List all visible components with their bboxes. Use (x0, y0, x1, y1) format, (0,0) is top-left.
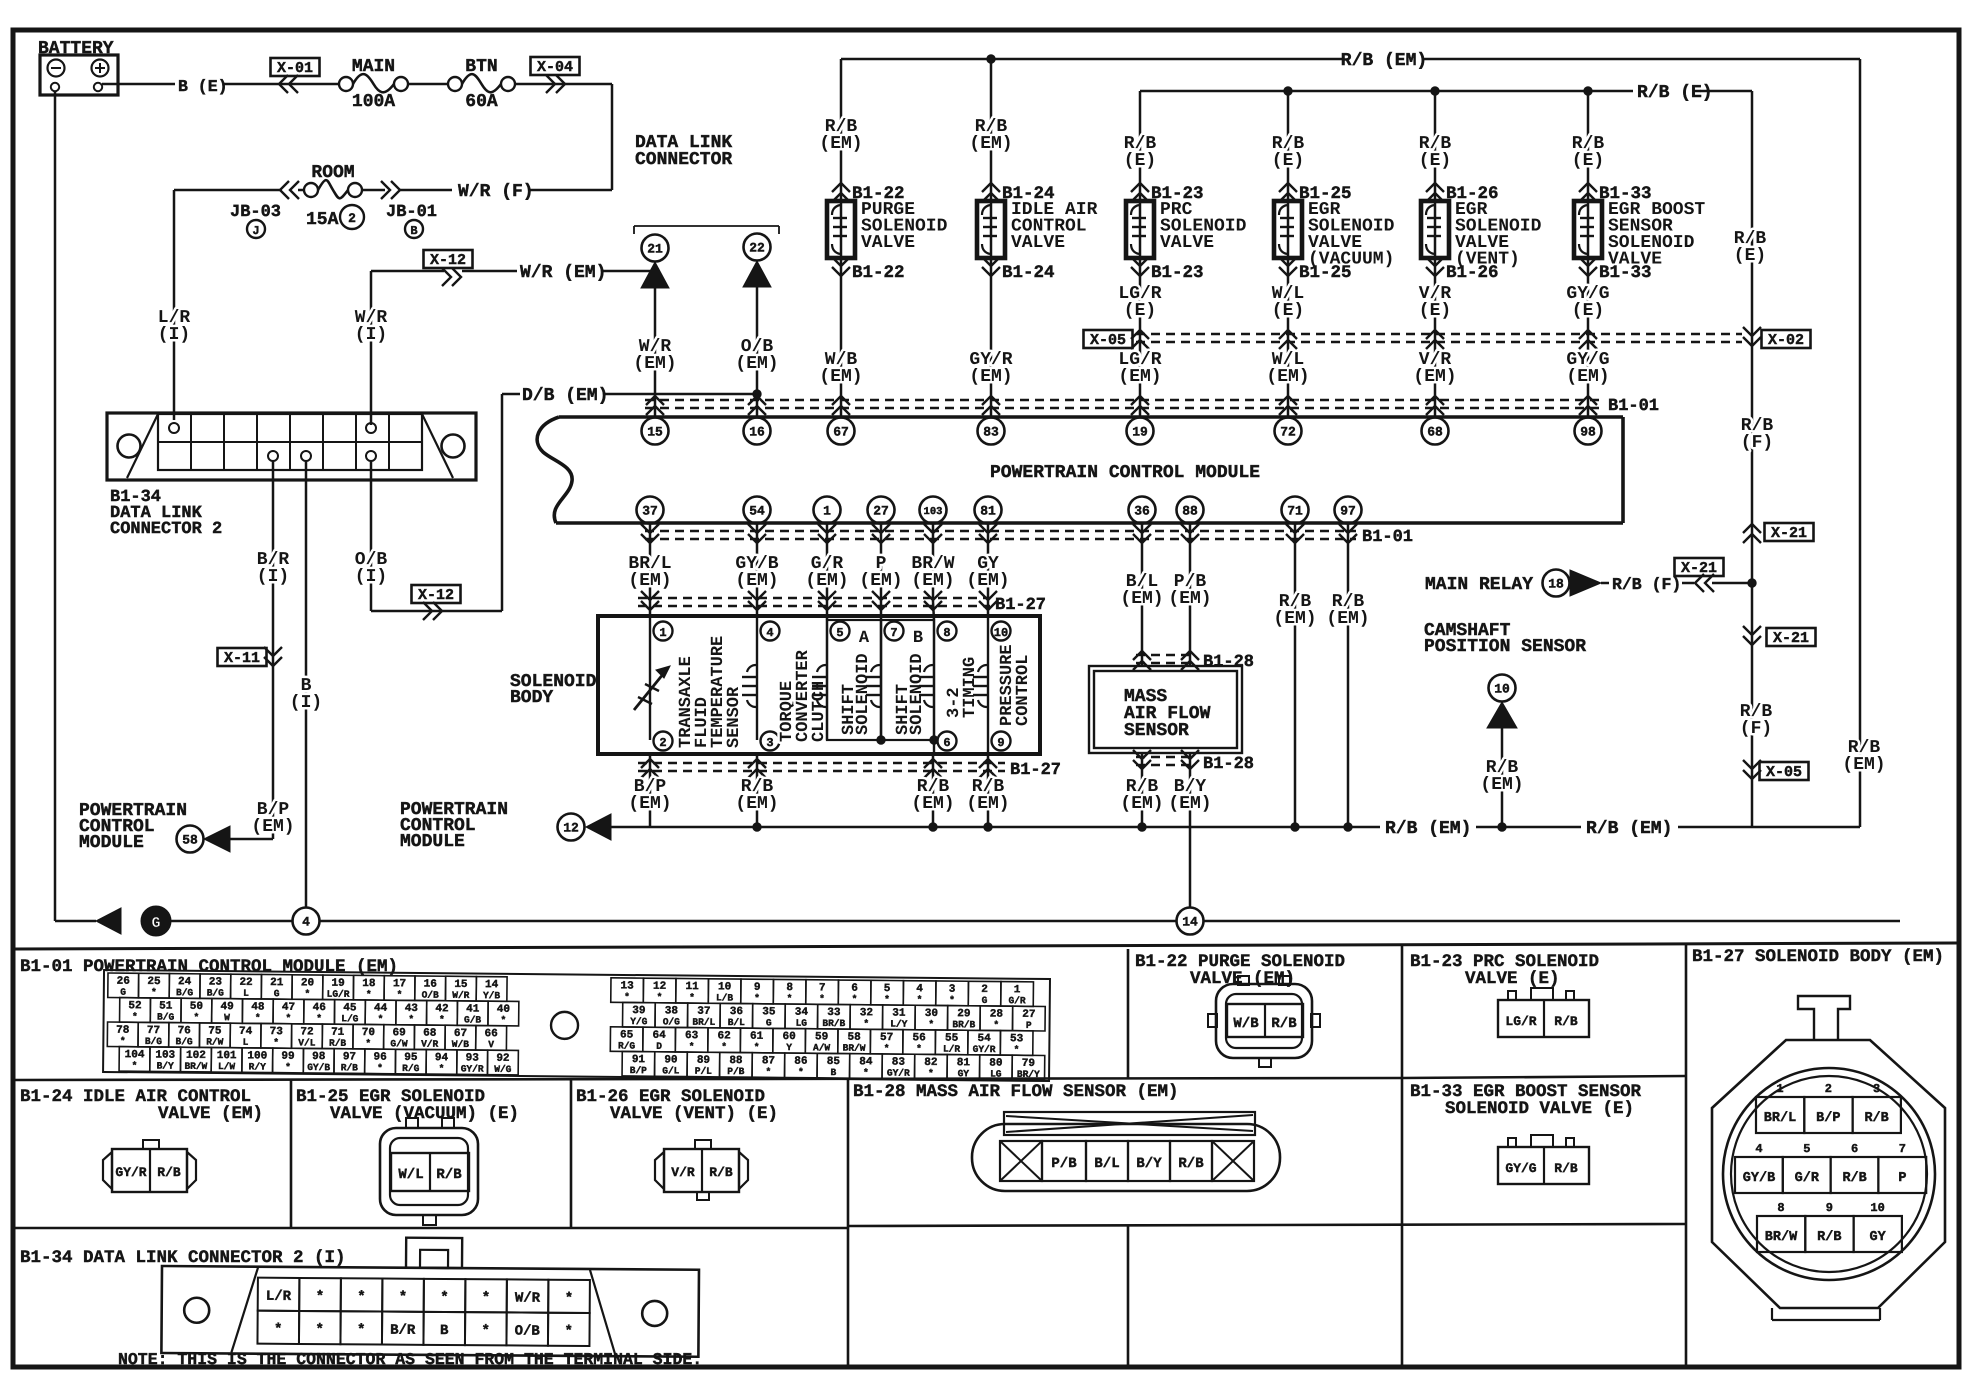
svg-text:X-21: X-21 (1771, 525, 1807, 542)
svg-text:R/B: R/B (709, 1165, 733, 1180)
data link connector 2 B1-34 body (107, 413, 476, 480)
wire R/B (EM) TCC return (756, 754, 759, 827)
svg-text:(E): (E) (1734, 246, 1766, 266)
connector X-21 on vertical (1743, 524, 1761, 533)
shift solenoid B inner box (881, 620, 934, 740)
svg-text:X-02: X-02 (1768, 332, 1804, 349)
svg-text:(EM): (EM) (819, 134, 862, 154)
connector X-12 lower (412, 585, 461, 603)
svg-text:(EM): (EM) (966, 571, 1009, 591)
svg-text:10: 10 (994, 626, 1008, 640)
B1-01 bus crossing chevron at pin 19 (1131, 396, 1149, 405)
B1-28 dashed bus lower (1136, 756, 1196, 758)
svg-text:*: * (993, 1020, 999, 1031)
svg-text:*: * (132, 1011, 138, 1022)
svg-text:*: * (565, 1291, 574, 1307)
svg-text:B: B (440, 1323, 449, 1339)
svg-text:MAIN: MAIN (352, 57, 395, 77)
svg-text:G: G (120, 987, 126, 998)
svg-text:8: 8 (1777, 1201, 1784, 1215)
wire W/R (EM) to PCM pin 15 (654, 288, 657, 418)
connector B1-26 upper chevron (1426, 183, 1444, 192)
svg-text:22: 22 (749, 241, 765, 256)
svg-text:W/B: W/B (1233, 1016, 1259, 1032)
svg-text:1: 1 (659, 626, 666, 640)
B1-01 bus crossing chevron at pin 83 (982, 396, 1000, 405)
svg-text:BR/B: BR/B (822, 1018, 845, 1029)
svg-text:X-04: X-04 (537, 59, 573, 76)
svg-text:W/R: W/R (515, 1290, 541, 1306)
svg-text:B1-28: B1-28 (1203, 653, 1254, 672)
svg-text:(E): (E) (1419, 301, 1451, 321)
svg-text:*: * (316, 1013, 322, 1024)
solenoid valve B1-26 branch wire (1434, 91, 1437, 418)
svg-text:10: 10 (1870, 1201, 1884, 1215)
svg-text:(EM): (EM) (859, 571, 902, 591)
svg-text:CONNECTOR 2: CONNECTOR 2 (110, 520, 222, 539)
svg-text:*: * (1014, 1044, 1020, 1055)
svg-text:B/L: B/L (728, 1017, 746, 1028)
svg-text:*: * (765, 1066, 771, 1077)
svg-text:R/B: R/B (1817, 1230, 1841, 1245)
svg-text:R/G: R/G (618, 1040, 636, 1051)
svg-text:1: 1 (823, 504, 831, 519)
B1-33 connector drawing (1498, 1147, 1589, 1184)
svg-text:R/B: R/B (329, 1038, 347, 1049)
svg-text:D/B (EM): D/B (EM) (522, 386, 608, 406)
ground symbol G with arrow (55, 920, 96, 923)
purge solenoid valve B1-22 (827, 201, 855, 258)
B1-01 PCM connector pin grid drawing (103, 970, 1050, 1081)
svg-text:(EM): (EM) (1566, 367, 1609, 387)
svg-text:R/B (EM): R/B (EM) (1385, 819, 1471, 839)
wire BR/W (EM) pin 103 (932, 523, 935, 602)
svg-text:(EM): (EM) (628, 794, 671, 814)
svg-text:SENSOR: SENSOR (1124, 721, 1189, 741)
svg-text:B/G: B/G (207, 987, 225, 998)
svg-text:(EM): (EM) (1266, 367, 1309, 387)
svg-text:(EM): (EM) (1168, 794, 1211, 814)
svg-text:B/G: B/G (175, 1036, 193, 1047)
svg-text:B/Y: B/Y (1136, 1156, 1162, 1172)
svg-text:67: 67 (833, 425, 849, 440)
svg-text:R/G: R/G (402, 1063, 420, 1074)
svg-text:*: * (721, 1041, 727, 1052)
svg-text:G/R: G/R (1008, 995, 1026, 1006)
B1-01 bus crossing chevron at pin 98 (1579, 396, 1597, 405)
wire LG/R (EM) through X-05 bus (1131, 330, 1149, 339)
svg-text:15: 15 (647, 425, 663, 440)
pressure control solenoid element (987, 616, 989, 754)
PCM pin 72 (1275, 418, 1302, 445)
svg-text:*: * (193, 1012, 199, 1023)
svg-text:*: * (255, 1012, 261, 1023)
svg-text:GY/R: GY/R (115, 1165, 146, 1180)
svg-text:4: 4 (766, 626, 773, 640)
svg-text:*: * (439, 1014, 445, 1025)
svg-text:(EM): (EM) (1413, 367, 1456, 387)
idle air solenoid valve B1-24 (977, 201, 1005, 258)
svg-text:CONNECTOR: CONNECTOR (635, 150, 732, 170)
svg-text:(E): (E) (1272, 301, 1304, 321)
wire R/B (EM) MAF return (1141, 753, 1144, 827)
PCM pin 12 reference arrow (558, 814, 585, 841)
svg-text:1: 1 (1776, 1082, 1783, 1096)
svg-text:B/Y: B/Y (157, 1060, 175, 1071)
svg-text:2: 2 (1825, 1082, 1832, 1096)
wire R/B (EM) pin 71 (1294, 523, 1297, 827)
svg-text:15A: 15A (306, 210, 339, 230)
svg-text:VALVE: VALVE (1011, 233, 1065, 253)
svg-text:GY/R: GY/R (461, 1063, 484, 1074)
svg-text:9: 9 (1826, 1201, 1833, 1215)
svg-text:(EM): (EM) (969, 367, 1012, 387)
svg-text:*: * (440, 1290, 449, 1306)
svg-text:(EM): (EM) (1120, 794, 1163, 814)
B1-27 dashed bus upper (638, 597, 990, 599)
connector X-11 (218, 648, 267, 666)
svg-text:O/B: O/B (422, 990, 440, 1001)
svg-text:3: 3 (766, 736, 773, 750)
solenoid valve B1-24 branch wire (990, 59, 993, 418)
mass air flow sensor box (1089, 666, 1242, 753)
wire GY (EM) pin 81 (987, 523, 990, 616)
B1-01 bus crossing chevron at pin 68 (1426, 396, 1444, 405)
svg-text:POSITION SENSOR: POSITION SENSOR (1424, 637, 1586, 657)
svg-text:(E): (E) (1272, 151, 1304, 171)
terminal 22 of data link connector (744, 234, 771, 261)
PCM bottom pin row (637, 497, 664, 524)
terminal 21 of data link connector (642, 235, 669, 262)
connector B1-23 lower chevron (1131, 257, 1149, 266)
B1-01 bus crossing chevron at pin 72 (1279, 396, 1297, 405)
svg-text:VALVE (E): VALVE (E) (1465, 969, 1560, 989)
svg-text:37: 37 (642, 504, 658, 519)
svg-text:BR/Y: BR/Y (1017, 1069, 1040, 1080)
svg-text:*: * (366, 989, 372, 1000)
svg-text:V/L: V/L (298, 1037, 316, 1048)
svg-text:103: 103 (924, 506, 943, 518)
svg-text:4: 4 (302, 915, 310, 930)
svg-text:R/B (EM): R/B (EM) (1341, 51, 1427, 71)
svg-text:58: 58 (182, 833, 198, 848)
svg-text:W/R (EM): W/R (EM) (520, 263, 606, 283)
PCM pin 83 (978, 418, 1005, 445)
svg-text:*: * (884, 1043, 890, 1054)
svg-text:(EM): (EM) (819, 367, 862, 387)
svg-text:*: * (754, 1042, 760, 1053)
shift solenoid A inner box (827, 620, 881, 740)
svg-text:B1-01: B1-01 (1608, 397, 1659, 416)
data link connector 2 pin grid (158, 414, 422, 470)
svg-text:*: * (273, 1037, 279, 1048)
svg-text:R/B: R/B (1864, 1111, 1888, 1126)
B1-22 connector drawing (1216, 984, 1312, 1058)
svg-text:(E): (E) (1419, 151, 1451, 171)
wire B/P (EM) transaxle return (649, 754, 652, 827)
svg-text:MODULE: MODULE (400, 832, 465, 852)
wire R/B (EM) 3-2 return (932, 754, 935, 827)
connector B1-26 lower chevron (1426, 257, 1444, 266)
connector B1-25 upper chevron (1279, 183, 1297, 192)
svg-text:W/L: W/L (398, 1167, 423, 1183)
svg-text:B (E): B (E) (178, 77, 228, 96)
svg-text:*: * (819, 993, 825, 1004)
svg-text:LG: LG (796, 1018, 808, 1029)
svg-text:100A: 100A (352, 92, 395, 112)
svg-text:*: * (365, 1038, 371, 1049)
svg-text:(I): (I) (257, 567, 289, 587)
svg-text:*: * (316, 1289, 325, 1305)
svg-text:3: 3 (1873, 1082, 1880, 1096)
svg-text:54: 54 (749, 504, 765, 519)
svg-text:*: * (754, 993, 760, 1004)
svg-text:G/R: G/R (1795, 1171, 1820, 1186)
svg-text:21: 21 (647, 242, 663, 257)
svg-text:W/G: W/G (494, 1064, 512, 1075)
svg-text:7: 7 (890, 626, 897, 640)
svg-text:L/B: L/B (716, 992, 734, 1003)
svg-text:*: * (863, 1018, 869, 1029)
wire L/R (I) down to data link connector 2 (173, 190, 176, 420)
svg-text:(EM): (EM) (633, 354, 676, 374)
svg-text:*: * (304, 988, 310, 999)
wire GY/B (EM) pin 54 (756, 523, 759, 616)
svg-text:LG: LG (990, 1068, 1002, 1079)
wire W/R (I) / W/R (EM) route (370, 271, 373, 425)
PCM top pins 15 16 (642, 418, 669, 445)
svg-text:B1-22: B1-22 (852, 263, 905, 283)
svg-text:B: B (830, 1067, 836, 1078)
wire R/B (EM) bottom rail (611, 826, 1380, 829)
svg-text:B/L: B/L (1094, 1156, 1119, 1172)
battery negative wire (54, 91, 57, 921)
svg-text:83: 83 (983, 425, 999, 440)
connector B1-22 lower chevron (832, 257, 850, 266)
svg-text:L/R: L/R (943, 1044, 961, 1055)
connector B1-25 lower chevron (1279, 257, 1297, 266)
wire R/B (E) rail (1140, 90, 1633, 93)
B1-26 connector drawing (655, 1152, 664, 1189)
svg-text:O/G: O/G (663, 1016, 681, 1027)
svg-text:2: 2 (659, 736, 666, 750)
svg-text:L: L (243, 1037, 249, 1048)
svg-text:(EM): (EM) (1118, 367, 1161, 387)
svg-text:R/B: R/B (436, 1167, 462, 1183)
svg-text:B/G: B/G (145, 1036, 163, 1047)
svg-text:P/B: P/B (727, 1066, 745, 1077)
svg-text:*: * (377, 1063, 383, 1074)
connector X-05 label on bus (1084, 330, 1133, 348)
svg-text:(EM): (EM) (805, 571, 848, 591)
powertrain control module box (537, 417, 572, 523)
svg-text:B1-33: B1-33 (1599, 263, 1652, 283)
svg-text:*: * (798, 1067, 804, 1078)
wire from X-04 down to ROOM fuse line (515, 83, 612, 86)
svg-text:(EM): (EM) (251, 817, 294, 837)
svg-text:W: W (224, 1012, 230, 1023)
svg-text:BODY: BODY (510, 688, 553, 708)
svg-text:*: * (916, 1043, 922, 1054)
svg-text:*: * (787, 993, 793, 1004)
connector B1-23 upper chevron (1131, 183, 1149, 192)
B1-24 connector drawing (103, 1152, 112, 1189)
svg-text:6: 6 (943, 736, 950, 750)
svg-text:R/W: R/W (206, 1036, 224, 1047)
svg-text:G/L: G/L (662, 1065, 680, 1076)
svg-text:*: * (928, 1019, 934, 1030)
svg-text:(EM): (EM) (1842, 755, 1885, 775)
connector B1-33 lower chevron (1579, 257, 1597, 266)
svg-text:GY/B: GY/B (307, 1062, 330, 1073)
node 14 on ground rail (1177, 908, 1204, 935)
svg-text:(I): (I) (290, 693, 322, 713)
wire R/B (EM) pressure return (987, 754, 990, 827)
fuse MAIN 100A (339, 77, 353, 91)
svg-text:SOLENOID VALVE (E): SOLENOID VALVE (E) (1445, 1099, 1634, 1119)
wire B (I) to ground node 4 (305, 461, 308, 907)
svg-text:*: * (285, 1062, 291, 1073)
svg-text:*: * (408, 1014, 414, 1025)
svg-text:LG/R: LG/R (1505, 1014, 1536, 1029)
svg-text:*: * (657, 992, 663, 1003)
svg-text:*: * (120, 1036, 126, 1047)
svg-text:X-05: X-05 (1090, 332, 1126, 349)
connector X-12 upper (424, 250, 473, 268)
svg-text:BR/B: BR/B (952, 1019, 975, 1030)
svg-text:72: 72 (1280, 425, 1296, 440)
svg-text:R/B (F): R/B (F) (1612, 575, 1681, 594)
svg-text:(EM): (EM) (735, 794, 778, 814)
svg-text:R/B: R/B (157, 1165, 181, 1180)
svg-text:SENSOR: SENSOR (725, 686, 744, 748)
svg-text:B/G: B/G (157, 1011, 175, 1022)
svg-text:P: P (1898, 1171, 1906, 1186)
svg-text:(EM): (EM) (628, 571, 671, 591)
node 4 on ground rail (293, 908, 320, 935)
svg-text:(F): (F) (1741, 433, 1773, 453)
solenoid body box (598, 616, 1040, 754)
svg-text:W/R (F): W/R (F) (458, 182, 534, 202)
wire P (EM) pin 27 (880, 523, 883, 620)
svg-text:B1-28 MASS AIR FLOW SENSOR (EM: B1-28 MASS AIR FLOW SENSOR (EM) (853, 1082, 1179, 1102)
svg-text:NOTE: THIS IS THE CONNECTOR AS: NOTE: THIS IS THE CONNECTOR AS SEEN FROM… (118, 1350, 702, 1369)
B1-01 top dashed bus (645, 399, 1600, 401)
svg-text:W/B: W/B (452, 1039, 470, 1050)
junction JB-03 (280, 181, 289, 199)
solenoid valve B1-22 branch wire (840, 59, 843, 418)
svg-text:MAIN RELAY: MAIN RELAY (1425, 575, 1533, 595)
svg-text:(I): (I) (355, 325, 387, 345)
wire W/L (EM) through X-05 bus (1279, 330, 1297, 339)
svg-text:R/B: R/B (341, 1062, 359, 1073)
PCM pin 68 (1422, 418, 1449, 445)
svg-text:(EM): (EM) (1480, 775, 1523, 795)
svg-text:VALVE (VENT) (E): VALVE (VENT) (E) (610, 1104, 778, 1124)
svg-text:*: * (917, 994, 923, 1005)
svg-text:*: * (357, 1289, 366, 1305)
svg-text:18: 18 (1548, 577, 1564, 592)
svg-text:D: D (656, 1041, 662, 1052)
svg-text:G/B: G/B (464, 1014, 482, 1025)
PCM pin 98 (1575, 418, 1602, 445)
PCM pin 58 reference arrow (204, 826, 230, 852)
egr solenoid valve B1-26 (1421, 201, 1449, 258)
svg-text:J: J (252, 224, 259, 238)
wire R/B (EM) top rail (841, 58, 1344, 61)
svg-text:81: 81 (980, 504, 996, 519)
shift solenoid A element (826, 620, 828, 740)
svg-text:B1-01: B1-01 (1362, 528, 1413, 547)
svg-text:71: 71 (1287, 504, 1303, 519)
svg-text:B1-27: B1-27 (1010, 761, 1061, 780)
svg-text:R/B: R/B (1554, 1161, 1578, 1176)
svg-text:*: * (482, 1290, 491, 1306)
svg-text:5: 5 (836, 626, 843, 640)
svg-text:X-11: X-11 (224, 650, 260, 667)
solenoid valve B1-25 branch wire (1287, 91, 1290, 418)
wire O/B (I) / D/B (EM) route (370, 461, 373, 611)
connector B1-22 upper chevron (832, 183, 850, 192)
svg-text:V/R: V/R (421, 1039, 439, 1050)
svg-text:G: G (274, 988, 280, 999)
svg-text:10: 10 (1494, 682, 1510, 697)
svg-text:88: 88 (1182, 504, 1198, 519)
wire R/B (EM) pin 97 (1347, 523, 1350, 827)
svg-text:V/R: V/R (671, 1165, 695, 1180)
svg-text:*: * (564, 1324, 573, 1340)
connector X-02 (1743, 327, 1761, 336)
svg-text:VALVE: VALVE (861, 233, 915, 253)
solenoid valve B1-33 branch wire (1587, 91, 1590, 418)
wire V/R (EM) through X-05 bus (1426, 330, 1444, 339)
svg-text:*: * (949, 995, 955, 1006)
B1-28 connector drawing (972, 1124, 1280, 1191)
svg-text:B1-27: B1-27 (995, 596, 1046, 615)
svg-text:LG/R: LG/R (327, 989, 350, 1000)
connector B1-33 upper chevron (1579, 183, 1597, 192)
svg-text:98: 98 (1580, 425, 1596, 440)
svg-text:2: 2 (348, 211, 356, 226)
ground rail wire (171, 920, 292, 923)
svg-text:B: B (913, 629, 923, 648)
svg-text:R/Y: R/Y (249, 1061, 267, 1072)
svg-text:L/R: L/R (266, 1289, 292, 1305)
svg-text:12: 12 (563, 821, 579, 836)
connector X-21 at main relay (1675, 558, 1724, 576)
B1-27 dashed bus lower (638, 762, 1005, 764)
svg-text:(EM): (EM) (911, 794, 954, 814)
svg-text:VALVE: VALVE (1160, 233, 1214, 253)
svg-text:(E): (E) (1572, 301, 1604, 321)
data link connector bracket (634, 225, 779, 227)
svg-text:B: B (410, 224, 417, 238)
svg-text:*: * (863, 1067, 869, 1078)
svg-text:O/B: O/B (515, 1323, 541, 1339)
svg-text:L/G: L/G (341, 1013, 359, 1024)
svg-text:*: * (884, 994, 890, 1005)
svg-text:B/G: B/G (176, 987, 194, 998)
svg-text:*: * (151, 987, 157, 998)
svg-text:VALVE (VACUUM) (E): VALVE (VACUUM) (E) (330, 1104, 519, 1124)
svg-text:*: * (481, 1323, 490, 1339)
wire B/Y (EM) MAF to node 14 (1189, 753, 1192, 907)
connector X-01 (271, 58, 320, 76)
svg-text:GY/G: GY/G (1505, 1161, 1536, 1176)
svg-text:(E): (E) (1124, 151, 1156, 171)
svg-text:P/B: P/B (1051, 1156, 1077, 1172)
wire W/R (F) room fuse feed (174, 189, 282, 192)
